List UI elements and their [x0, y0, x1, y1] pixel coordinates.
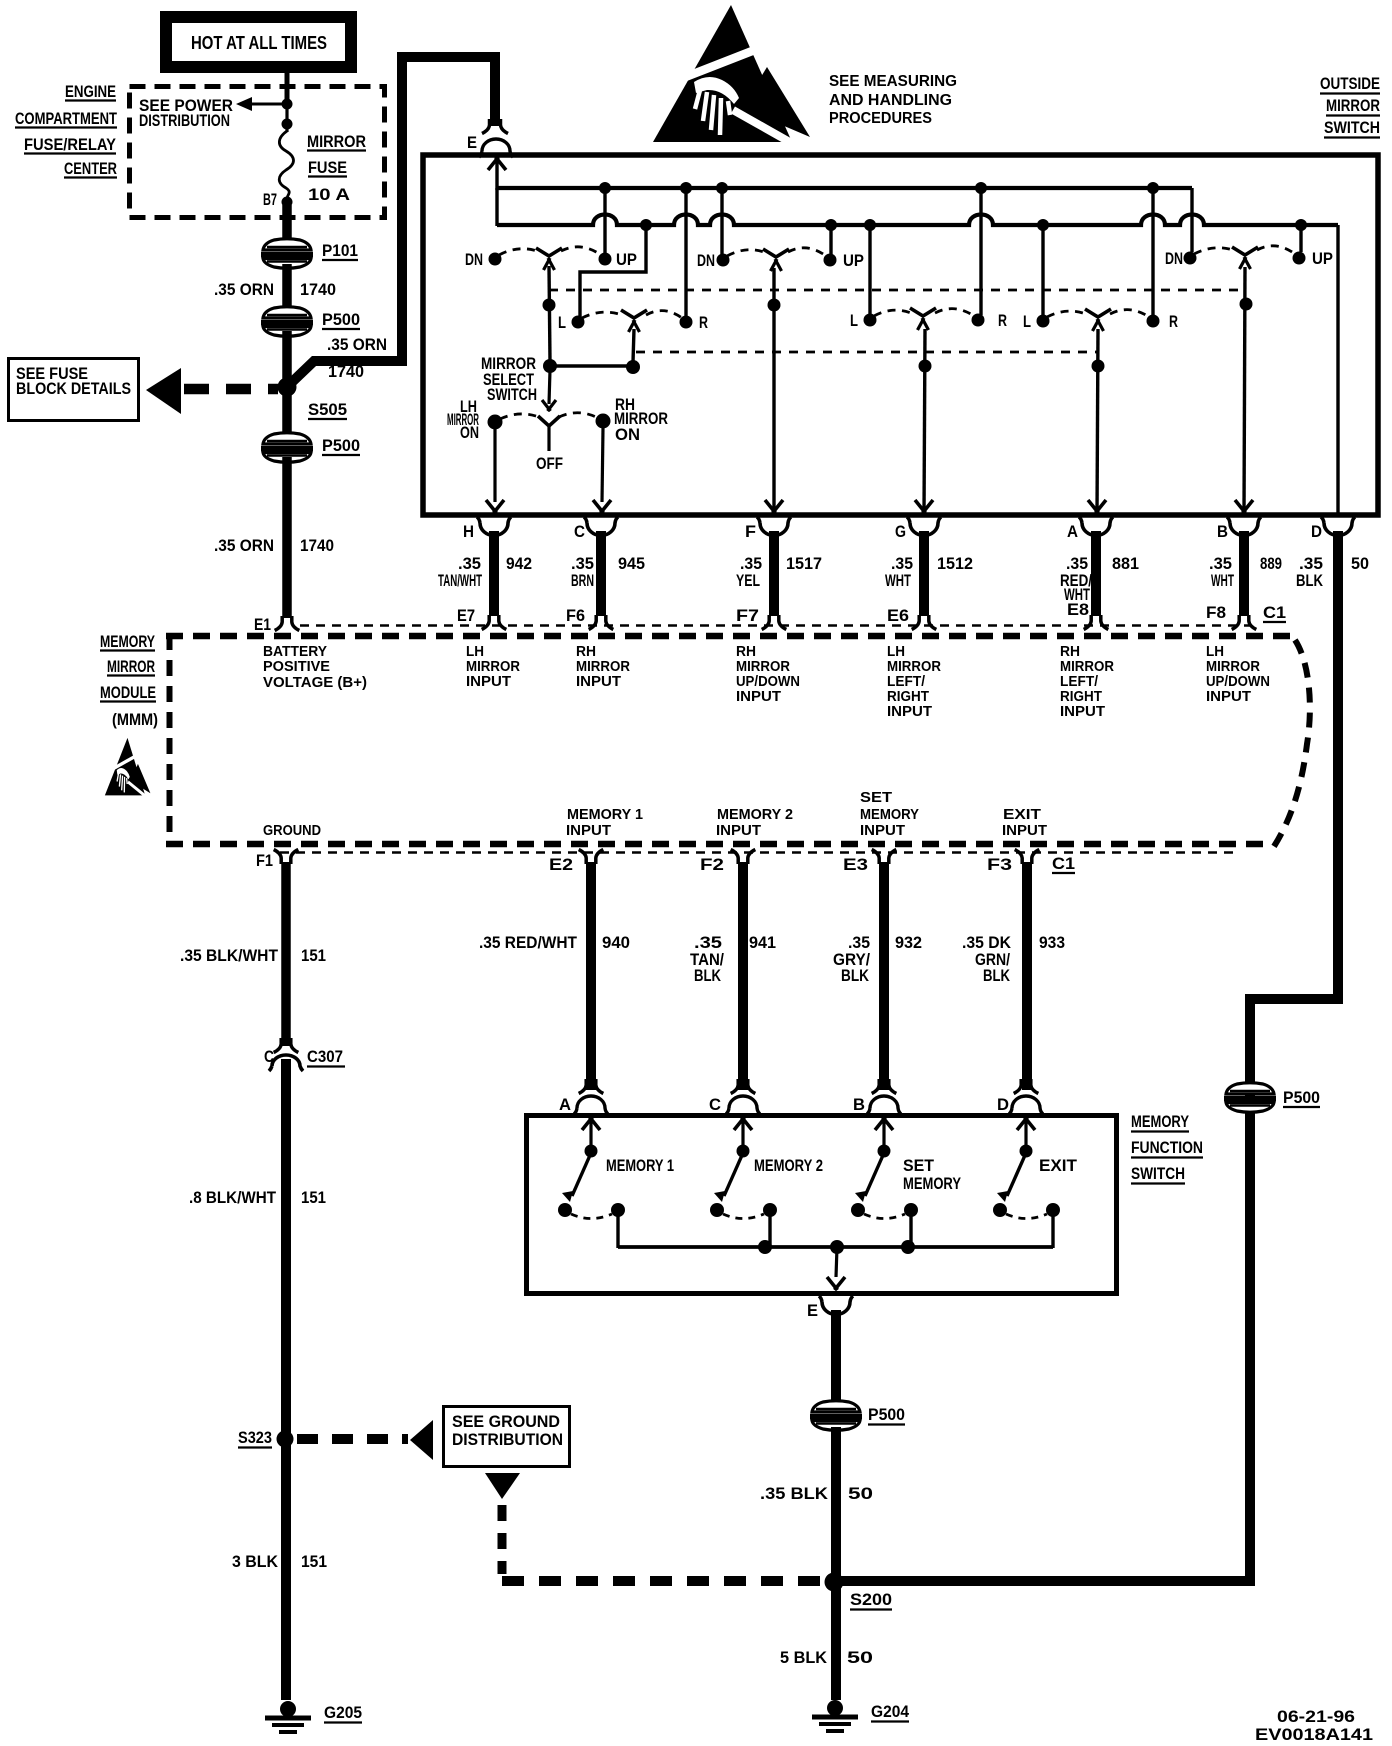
- svg-text:E8: E8: [1067, 601, 1089, 619]
- svg-text:C1: C1: [1052, 855, 1075, 873]
- switch: left/right (sw3): [1023, 309, 1178, 331]
- wire: C307 to S323 .8 BLK/WHT: [281, 1059, 291, 1441]
- memory mirror module box left edge: [167, 634, 173, 846]
- svg-text:INPUT: INPUT: [1002, 823, 1047, 839]
- svg-text:EV0018A141: EV0018A141: [1255, 1725, 1373, 1744]
- svg-text:BLK: BLK: [841, 967, 869, 985]
- node on pivot3 shaft: [1240, 298, 1253, 311]
- svg-text:E3: E3: [843, 856, 868, 874]
- svg-text:933: 933: [1039, 934, 1065, 952]
- switch: LH mirror left/right: [558, 310, 708, 332]
- svg-text:UP: UP: [1312, 250, 1333, 268]
- node: feed junction lower: [282, 119, 293, 130]
- wire: rail2 to UP (sw3): [1299, 225, 1302, 252]
- svg-text:S323: S323: [238, 1429, 272, 1447]
- connector P101: [261, 239, 358, 269]
- svg-text:.35 DK: .35 DK: [962, 934, 1011, 952]
- svg-text:EXIT: EXIT: [1003, 807, 1041, 823]
- svg-text:SWITCH: SWITCH: [487, 386, 537, 404]
- svg-text:A: A: [559, 1096, 571, 1114]
- svg-text:ON: ON: [615, 426, 640, 444]
- pin F8 label: [1206, 604, 1226, 622]
- node on pivot2 shaft: [768, 299, 781, 312]
- pin E terminal (outside mirror switch): [467, 119, 513, 157]
- wire: P500 to S200 .35 BLK 50: [831, 1427, 841, 1584]
- svg-text:WHT: WHT: [885, 572, 911, 590]
- MMM pin function label: LH MIRROR LEFT/RIGHT INPUT (E6): [887, 644, 941, 720]
- wire: LH-ON to pin H with arrow: [486, 429, 504, 513]
- svg-text:P500: P500: [868, 1406, 905, 1424]
- svg-text:LEFT/: LEFT/: [1060, 674, 1098, 690]
- svg-text:D: D: [1311, 523, 1322, 541]
- svg-text:BLK: BLK: [694, 967, 721, 985]
- switch: MEMORY 2: [710, 1117, 823, 1248]
- splice S323: [238, 1429, 294, 1448]
- wire labels .35 BLK 50: [1296, 555, 1369, 590]
- wire: rail1 to R (LH left/right): [684, 188, 687, 316]
- svg-text:MEMORY: MEMORY: [1131, 1113, 1189, 1131]
- svg-text:PROCEDURES: PROCEDURES: [829, 110, 932, 127]
- svg-text:RH: RH: [736, 644, 756, 660]
- wire: pivotL2 shaft down to pin G: [924, 329, 925, 515]
- connector face line C1 (bottom): [280, 851, 1240, 853]
- switch: RH mirror up/down (DN-UP row 2): [697, 248, 864, 271]
- pin D terminal (memory function switch): [997, 1079, 1043, 1114]
- svg-text:INPUT: INPUT: [736, 689, 781, 705]
- pin C terminal (memory function switch): [709, 1079, 760, 1114]
- node on pivot1 shaft: [543, 299, 556, 312]
- svg-text:G205: G205: [324, 1704, 362, 1722]
- junction node on rail1 x=722: [716, 182, 728, 194]
- wire label 3 BLK 151: [232, 1553, 327, 1571]
- svg-text:.35 ORN: .35 ORN: [214, 537, 274, 555]
- label SEE POWER DISTRIBUTION: [139, 97, 233, 130]
- svg-text:1740: 1740: [300, 537, 334, 555]
- svg-text:E6: E6: [887, 607, 909, 625]
- label MIRROR SELECT SWITCH: [481, 355, 537, 404]
- junction node on rail1 x=686: [680, 182, 692, 194]
- see fuse block details box: [9, 359, 139, 421]
- svg-text:FUSE: FUSE: [308, 159, 347, 177]
- wire: rail1 to rail2 drop at left: [495, 188, 498, 226]
- node B7: [263, 191, 293, 209]
- svg-text:50: 50: [847, 1649, 873, 1667]
- svg-text:UP: UP: [843, 252, 864, 270]
- connector P500 (body harness): [810, 1401, 905, 1431]
- MMM pin function label: MEMORY 2 INPUT: [716, 807, 793, 839]
- wire: F2 memory2: [738, 862, 748, 1090]
- svg-text:MIRROR: MIRROR: [466, 659, 520, 675]
- wire segment x=494 switch to MMM: [489, 531, 499, 616]
- arrow into pin F: [765, 500, 783, 513]
- svg-text:.35: .35: [458, 555, 481, 573]
- wire segment x=774 switch to MMM: [769, 531, 779, 616]
- svg-text:LH: LH: [1206, 644, 1224, 660]
- connector P500 (engine harness): [261, 307, 360, 337]
- terminal flare at MMM x=924: [912, 615, 937, 630]
- MMM pin function label: LH MIRROR INPUT (E7): [466, 644, 520, 690]
- svg-text:P500: P500: [322, 311, 360, 329]
- svg-text:OUTSIDE: OUTSIDE: [1320, 75, 1380, 93]
- svg-text:RH: RH: [576, 644, 596, 660]
- svg-text:MEMORY 2: MEMORY 2: [754, 1157, 823, 1175]
- connector C307: [264, 1038, 345, 1071]
- wire: S505 to P500 lower: [282, 388, 292, 437]
- junction node on rail2 x=831: [825, 219, 837, 231]
- terminal flare at MMM x=1244: [1232, 615, 1257, 630]
- MMM pin function label: BATTERY POSITIVE VOLTAGE (B+): [263, 644, 367, 691]
- dashed wire to ground distribution with arrow: [297, 1420, 433, 1460]
- connector C1 label (top): [1263, 604, 1286, 622]
- wire: rail1 to DN (RH up/down sw2): [720, 188, 723, 255]
- mirror select common node 2: [626, 360, 640, 374]
- wire: S200 to G204 5 BLK 50: [831, 1584, 841, 1700]
- junction node on rail1 x=981: [975, 182, 987, 194]
- pin F6 label: [566, 607, 585, 625]
- svg-text:INPUT: INPUT: [566, 823, 611, 839]
- junction node bus x=837 (E out): [830, 1240, 844, 1254]
- svg-text:DN: DN: [1165, 250, 1183, 268]
- svg-text:.35 ORN: .35 ORN: [214, 281, 274, 299]
- wire: P500 to S505: [282, 331, 292, 388]
- svg-text:INPUT: INPUT: [576, 674, 621, 690]
- wire label .35 ORN 1740 (at branch): [327, 336, 387, 381]
- svg-text:10 A: 10 A: [308, 186, 350, 204]
- svg-text:5 BLK: 5 BLK: [780, 1649, 827, 1667]
- wire: E2 memory1: [586, 862, 596, 1090]
- ground G205: [265, 1701, 362, 1732]
- svg-text:C: C: [264, 1048, 274, 1066]
- switch: SET MEMORY: [851, 1117, 961, 1248]
- svg-text:50: 50: [1351, 555, 1369, 573]
- wire: P101 to P500: [282, 264, 292, 310]
- MMM pin function label: MEMORY 1 INPUT: [566, 807, 643, 839]
- svg-text:MEMORY: MEMORY: [903, 1175, 961, 1193]
- arrow to power distribution: [236, 97, 287, 111]
- svg-text:.35: .35: [571, 555, 594, 573]
- svg-text:1517: 1517: [786, 555, 822, 573]
- svg-text:E: E: [807, 1302, 818, 1320]
- pin A terminal (memory function switch): [559, 1079, 608, 1114]
- svg-text:151: 151: [301, 1553, 327, 1571]
- svg-text:3 BLK: 3 BLK: [232, 1553, 278, 1571]
- svg-text:.8 BLK/WHT: .8 BLK/WHT: [189, 1189, 276, 1207]
- svg-text:E1: E1: [254, 616, 271, 634]
- wire: pin D .35 BLK 50 down right side: [840, 531, 1338, 1581]
- wire: E3 set memory: [879, 862, 889, 1090]
- svg-text:DN: DN: [465, 251, 483, 269]
- splice S200: [825, 1573, 893, 1610]
- svg-text:BLK: BLK: [1296, 572, 1323, 590]
- svg-text:C: C: [574, 523, 585, 541]
- arrow into pin B: [1235, 500, 1253, 513]
- svg-text:MIRROR: MIRROR: [1060, 659, 1114, 675]
- MMM pin function label: RH MIRROR UP/DOWN INPUT (F7): [736, 644, 800, 705]
- pin H terminal (outside mirror switch): [463, 517, 511, 541]
- svg-text:OFF: OFF: [536, 455, 563, 473]
- svg-text:INPUT: INPUT: [466, 674, 511, 690]
- svg-text:BATTERY: BATTERY: [263, 644, 327, 660]
- pin F1 terminal: [256, 850, 298, 871]
- MMM pin function label: GROUND: [263, 823, 321, 839]
- junction node bus x=765: [758, 1240, 772, 1254]
- svg-text:C: C: [709, 1096, 721, 1114]
- MMM pin function label: SET MEMORY INPUT: [860, 790, 919, 839]
- svg-text:INPUT: INPUT: [1206, 689, 1251, 705]
- MMM pin function label: RH MIRROR INPUT (F6): [576, 644, 630, 690]
- svg-text:SEE GROUND: SEE GROUND: [452, 1413, 560, 1431]
- pin E1 terminal: [254, 616, 299, 634]
- svg-text:151: 151: [301, 1189, 326, 1207]
- pin B terminal (outside mirror switch): [1217, 517, 1261, 541]
- wire label 5 BLK 50: [780, 1649, 873, 1667]
- svg-text:E: E: [467, 134, 477, 152]
- svg-text:E7: E7: [457, 607, 475, 625]
- svg-text:MIRROR: MIRROR: [736, 659, 790, 675]
- switch: MEMORY 1: [558, 1117, 674, 1248]
- arrow: E input into switch: [488, 157, 506, 190]
- pin A terminal (outside mirror switch): [1067, 517, 1113, 541]
- wire: pivot3 shaft down to pin B: [1244, 267, 1245, 515]
- svg-text:FUNCTION: FUNCTION: [1131, 1139, 1203, 1157]
- wire labels .35 RED/WHT 881: [1060, 555, 1139, 604]
- pin E6 label: [887, 607, 909, 625]
- switch: left/right (sw2): [850, 308, 1007, 330]
- memory mirror module box bottom edge: [166, 841, 1268, 848]
- pin B terminal (memory function switch): [853, 1079, 901, 1114]
- svg-text:.35: .35: [891, 555, 913, 573]
- svg-text:L: L: [1023, 313, 1031, 331]
- memory function switch box: [527, 1116, 1117, 1294]
- wire label .35 DK GRN/BLK 933: [962, 934, 1065, 985]
- label OUTSIDE MIRROR SWITCH: [1320, 75, 1380, 138]
- svg-text:UP/DOWN: UP/DOWN: [1206, 674, 1270, 690]
- svg-text:F7: F7: [736, 607, 759, 625]
- switch: LH mirror up/down (DN-UP row 1): [465, 247, 637, 270]
- wire segment x=1244 switch to MMM: [1239, 531, 1249, 616]
- svg-text:G: G: [895, 523, 906, 541]
- wire label .35 ORN 1740 (lower): [214, 537, 334, 555]
- label MEMORY MIRROR MODULE (MMM): [100, 633, 158, 729]
- pin E terminal (memory function switch): [807, 1296, 853, 1320]
- svg-text:F6: F6: [566, 607, 585, 625]
- pin D terminal (outside mirror switch): [1311, 517, 1355, 541]
- svg-text:.35 BLK/WHT: .35 BLK/WHT: [180, 947, 278, 965]
- bus wire: switch commons: [618, 1245, 1053, 1249]
- svg-text:R: R: [998, 312, 1007, 330]
- svg-text:TAN/WHT: TAN/WHT: [438, 572, 482, 590]
- dashed arc LH-ON to OFF: [500, 414, 539, 419]
- node on pivotL3 shaft: [1092, 360, 1105, 373]
- svg-text:MEMORY 1: MEMORY 1: [606, 1157, 674, 1175]
- svg-text:.35: .35: [740, 555, 762, 573]
- mirror select switch pivot (OFF): [536, 416, 563, 473]
- label MEMORY FUNCTION SWITCH: [1131, 1113, 1203, 1184]
- wire labels .35 TAN/WHT 942: [438, 555, 532, 590]
- svg-text:A: A: [1067, 523, 1078, 541]
- bus wire lower (B+ rail 2) with crossover hops: [497, 215, 1338, 226]
- svg-text:MEMORY 2: MEMORY 2: [717, 807, 793, 823]
- ESD sensitivity symbol (large): [653, 5, 810, 149]
- svg-text:06-21-96: 06-21-96: [1277, 1707, 1355, 1726]
- wire: S323 to G205 3 BLK 151: [281, 1441, 291, 1700]
- power indicator box HOT AT ALL TIMES: [160, 11, 357, 73]
- svg-text:940: 940: [602, 934, 630, 952]
- MMM pin function label: RH MIRROR LEFT/RIGHT INPUT (E8): [1060, 644, 1114, 720]
- pin E2 terminal: [549, 850, 603, 875]
- switch: up/down (DN-UP row 3): [1165, 246, 1333, 269]
- svg-text:50: 50: [848, 1485, 873, 1503]
- contact: LH MIRROR ON: [447, 398, 503, 442]
- pin F3 terminal: [987, 850, 1039, 875]
- svg-text:(MMM): (MMM): [112, 711, 158, 729]
- svg-text:LH: LH: [466, 644, 484, 660]
- wire label .35 GRY/BLK 932: [833, 934, 922, 985]
- wire: pivot2 shaft down to pin F: [772, 268, 775, 515]
- fuse MIRROR FUSE 10 A (element): [279, 131, 293, 198]
- junction node on rail2 x=870: [864, 219, 876, 231]
- memory mirror module box right edge (curved): [1271, 640, 1310, 851]
- dashed ground distribution wire to S200: [502, 1505, 820, 1581]
- junction node bus x=908: [901, 1240, 915, 1254]
- wire label .35 BLK 50: [760, 1485, 873, 1503]
- connector P500 (right side): [1224, 1083, 1320, 1113]
- svg-text:AND HANDLING: AND HANDLING: [829, 92, 952, 109]
- svg-text:F2: F2: [700, 856, 724, 874]
- wire: rail2 jog to L (LH left/right): [580, 225, 646, 317]
- wire label .8 BLK/WHT 151: [189, 1189, 326, 1207]
- terminal flare at MMM x=1096: [1084, 615, 1109, 630]
- ESD sensitivity symbol (small, in MMM): [105, 738, 151, 798]
- MMM pin function label: LH MIRROR UP/DOWN INPUT (F8): [1206, 644, 1270, 705]
- svg-text:MIRROR: MIRROR: [1206, 659, 1260, 675]
- arrow: common to pin E: [827, 1247, 845, 1290]
- wire: B7 to P101: [282, 205, 292, 241]
- wire: pivotL1 shaft to select node2: [633, 329, 634, 362]
- arrow: ground distribution down: [485, 1473, 520, 1499]
- svg-text:151: 151: [301, 947, 326, 965]
- arrow into pin A: [1088, 500, 1106, 513]
- label engine compartment fuse/relay center: [15, 83, 117, 178]
- svg-text:F1: F1: [256, 852, 273, 870]
- node: feed junction upper: [282, 99, 293, 110]
- pin C terminal (outside mirror switch): [574, 517, 618, 541]
- svg-text:932: 932: [895, 934, 922, 952]
- svg-text:INPUT: INPUT: [887, 704, 932, 720]
- wire: junction to fuse: [285, 104, 288, 132]
- wire labels .35 BRN 945: [571, 555, 645, 590]
- svg-text:B: B: [1217, 523, 1228, 541]
- svg-text:POSITIVE: POSITIVE: [263, 659, 330, 675]
- svg-text:L: L: [558, 314, 566, 332]
- wire segment x=601 switch to MMM: [596, 531, 606, 616]
- svg-text:F: F: [745, 523, 756, 541]
- svg-text:MIRROR: MIRROR: [307, 133, 366, 151]
- label SEE MEASURING AND HANDLING PROCEDURES: [829, 73, 957, 127]
- svg-text:LEFT/: LEFT/: [887, 674, 925, 690]
- svg-text:MIRROR: MIRROR: [107, 658, 155, 676]
- svg-text:P101: P101: [322, 242, 358, 260]
- wire label .35 RED/WHT 940: [479, 934, 630, 952]
- wire: rail1 to UP (LH up/down): [603, 188, 606, 254]
- wire: rail1 to R (sw3): [1151, 188, 1154, 316]
- mechanical linkage dashed line 2: [636, 351, 1098, 354]
- svg-text:.35: .35: [694, 934, 722, 952]
- switch: EXIT: [993, 1117, 1077, 1248]
- arrow: select node1 down to OFF pivot: [542, 370, 556, 411]
- svg-text:EXIT: EXIT: [1039, 1157, 1077, 1175]
- bus wire upper (B+ rail 1): [497, 186, 1192, 190]
- svg-text:SET: SET: [860, 790, 892, 806]
- svg-text:R: R: [699, 314, 708, 332]
- svg-text:SEE MEASURING: SEE MEASURING: [829, 73, 957, 90]
- wire: rail1 corner down to DN (RH up/down): [1190, 188, 1193, 252]
- svg-text:SWITCH: SWITCH: [1324, 119, 1380, 137]
- svg-text:.35: .35: [1299, 555, 1323, 573]
- svg-text:C307: C307: [307, 1048, 343, 1066]
- svg-text:BLK: BLK: [983, 967, 1010, 985]
- svg-text:MIRROR: MIRROR: [576, 659, 630, 675]
- terminal flare at MMM x=494: [482, 615, 507, 630]
- svg-text:945: 945: [618, 555, 645, 573]
- outside mirror switch box: [423, 155, 1378, 515]
- wire segment x=1096 switch to MMM: [1091, 531, 1101, 616]
- svg-text:.35: .35: [1209, 555, 1232, 573]
- wire label .35 BLK/WHT 151: [180, 947, 326, 965]
- svg-text:941: 941: [749, 934, 776, 952]
- wire: ground F1 to C307: [281, 862, 291, 1046]
- svg-text:H: H: [463, 523, 474, 541]
- ground G204: [812, 1700, 910, 1731]
- terminal flare at MMM x=601: [589, 615, 614, 630]
- svg-text:MIRROR: MIRROR: [1326, 97, 1380, 115]
- svg-text:MIRROR: MIRROR: [887, 659, 941, 675]
- pin F terminal (outside mirror switch): [745, 517, 791, 541]
- svg-text:INPUT: INPUT: [860, 823, 905, 839]
- svg-text:E2: E2: [549, 856, 573, 874]
- svg-text:BLOCK DETAILS: BLOCK DETAILS: [16, 380, 131, 398]
- svg-text:F8: F8: [1206, 604, 1226, 622]
- junction node on rail2 x=1301: [1295, 219, 1307, 231]
- svg-text:D: D: [997, 1096, 1009, 1114]
- pin E7 label: [457, 607, 475, 625]
- wire labels .35 YEL 1517: [736, 555, 822, 590]
- svg-text:.35: .35: [848, 934, 870, 952]
- svg-text:P500: P500: [322, 437, 360, 455]
- svg-text:F3: F3: [987, 856, 1012, 874]
- svg-text:CENTER: CENTER: [64, 160, 117, 178]
- junction node on rail2 x=646: [640, 219, 652, 231]
- wire: rail2 to L (sw3): [1041, 225, 1044, 316]
- wire: E to P500: [831, 1310, 841, 1400]
- svg-text:.35 BLK: .35 BLK: [760, 1485, 828, 1503]
- see ground distribution box: [444, 1407, 570, 1467]
- svg-text:SET: SET: [903, 1157, 934, 1175]
- dashed wire to fuse block details with arrow: [146, 368, 278, 414]
- pin F7 label: [736, 607, 759, 625]
- svg-text:INPUT: INPUT: [1060, 704, 1105, 720]
- mechanical linkage dashed line 1: [549, 289, 1246, 292]
- memory mirror module box top edge: [166, 633, 1293, 640]
- connector P500 (lower): [261, 433, 360, 463]
- wire: P500 to MMM E1 .35 ORN 1740: [282, 457, 292, 618]
- svg-text:P500: P500: [1283, 1089, 1320, 1107]
- wire label .35 ORN 1740 (upper): [214, 281, 336, 299]
- wire: rail1 to R (sw2): [979, 188, 982, 315]
- wire: feed from hot box: [285, 70, 290, 106]
- connector face line C1 (top): [300, 624, 1252, 626]
- svg-text:DN: DN: [697, 252, 715, 270]
